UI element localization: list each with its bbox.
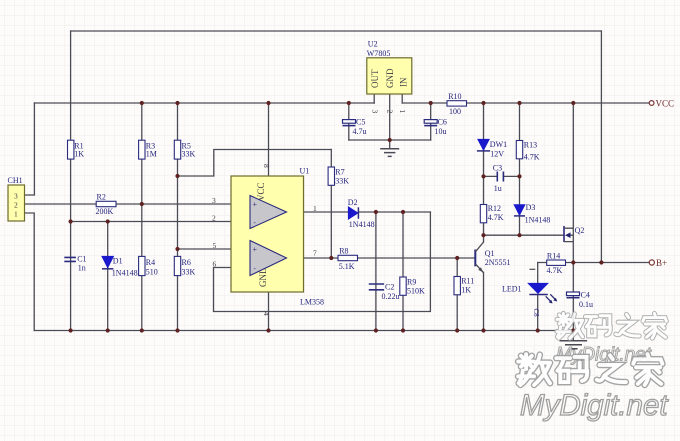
junction pin5 line R6 top bbox=[175, 247, 179, 251]
svg-text:2: 2 bbox=[386, 110, 395, 114]
junction pin7 line R11 top bbox=[455, 256, 459, 260]
svg-text:C6: C6 bbox=[438, 118, 447, 127]
capacitor C4 bbox=[567, 290, 594, 309]
svg-text:0.1u: 0.1u bbox=[579, 300, 593, 309]
wire C3 bridge bbox=[484, 175, 520, 177]
junction VCC rail pin8 bbox=[266, 101, 270, 105]
svg-text:+: + bbox=[253, 245, 258, 254]
svg-text:4.7K: 4.7K bbox=[547, 266, 563, 275]
svg-text:1u: 1u bbox=[494, 184, 502, 193]
svg-text:C8: C8 bbox=[532, 309, 540, 318]
svg-text:R2: R2 bbox=[97, 193, 106, 202]
watermark large 数码之家 bbox=[518, 354, 662, 385]
wire CH1 pin2 to op-amp pin3 through R2 bbox=[25, 203, 250, 205]
svg-text:C4: C4 bbox=[581, 290, 590, 299]
svg-text:R9: R9 bbox=[407, 278, 416, 287]
junction bottom rail Q1 emitter bbox=[481, 328, 485, 332]
svg-text:33K: 33K bbox=[182, 268, 196, 277]
svg-text:1N4148: 1N4148 bbox=[112, 268, 138, 277]
svg-text:U1: U1 bbox=[300, 167, 310, 176]
wire Q1 emitter to bottom rail bbox=[483, 273, 485, 331]
svg-text:R11: R11 bbox=[461, 276, 474, 285]
svg-text:MyDigit.net: MyDigit.net bbox=[520, 389, 669, 422]
svg-text:2: 2 bbox=[14, 200, 18, 209]
svg-text:4: 4 bbox=[262, 312, 271, 316]
svg-text:C3: C3 bbox=[493, 163, 502, 172]
svg-text:1M: 1M bbox=[146, 150, 157, 159]
junction bottom rail C2 bbox=[374, 328, 378, 332]
zener diode DW1 12V bbox=[477, 139, 507, 158]
wire R5 R6 column bbox=[177, 103, 179, 331]
junction B+ line sense column bbox=[599, 260, 603, 264]
wire R3 R4 column bbox=[141, 103, 143, 331]
wire D1 column bbox=[107, 222, 109, 331]
resistor R11 bbox=[454, 276, 474, 294]
svg-text:200K: 200K bbox=[96, 207, 114, 216]
svg-text:R13: R13 bbox=[524, 141, 537, 150]
svg-text:4.7K: 4.7K bbox=[488, 213, 504, 222]
svg-text:R6: R6 bbox=[182, 258, 191, 267]
svg-text:4.7K: 4.7K bbox=[524, 153, 540, 162]
wire left vertical CH1 pin3 bbox=[25, 103, 35, 195]
junction VCC rail R5 bbox=[175, 101, 179, 105]
wire C2 column bbox=[375, 212, 377, 331]
svg-text:D1: D1 bbox=[113, 257, 123, 266]
wire VCC rail right segment bbox=[402, 102, 649, 104]
wire R9 column bbox=[402, 212, 404, 331]
junction gate line D3 bbox=[517, 233, 521, 237]
svg-text:VCC: VCC bbox=[656, 99, 675, 109]
junction pin2 line D1 bbox=[106, 219, 110, 223]
resistor R4 bbox=[139, 256, 158, 276]
svg-text:33K: 33K bbox=[335, 177, 349, 186]
junction C3 left bbox=[481, 174, 485, 178]
resistor R2 bbox=[96, 193, 117, 216]
junction VCC rail R3 bbox=[140, 101, 144, 105]
polarity dash left of R14 bbox=[530, 268, 536, 270]
svg-text:DW1: DW1 bbox=[490, 140, 507, 149]
resistor R9 bbox=[400, 277, 425, 296]
diode D3 1N4148 bbox=[514, 203, 550, 224]
svg-text:7: 7 bbox=[313, 249, 317, 258]
wire C4 branch to ground bbox=[572, 263, 574, 341]
svg-text:1n: 1n bbox=[78, 263, 86, 272]
svg-text:5.1K: 5.1K bbox=[339, 262, 355, 271]
junction VCC rail C5 bbox=[347, 101, 351, 105]
resistor R6 bbox=[174, 256, 195, 276]
resistor R8 bbox=[338, 247, 358, 271]
watermark small 数码之家 bbox=[557, 313, 666, 338]
diode D1 1N4148 bbox=[102, 256, 138, 277]
capacitor C5 bbox=[343, 118, 367, 137]
svg-text:5: 5 bbox=[213, 241, 217, 250]
svg-text:R14: R14 bbox=[547, 251, 560, 260]
junction bottom rail pin4 bbox=[266, 328, 270, 332]
junction VCC rail Q2 drain bbox=[571, 101, 575, 105]
wire R13 D3 column bbox=[519, 103, 521, 235]
svg-text:R4: R4 bbox=[146, 258, 155, 267]
wire op-amp pin2 line bbox=[71, 221, 250, 223]
wire Q2 drain source column bbox=[572, 103, 574, 263]
svg-text:B+: B+ bbox=[656, 258, 667, 268]
VCC terminal bbox=[649, 99, 674, 109]
junction VCC rail C6 bbox=[429, 101, 433, 105]
svg-text:510K: 510K bbox=[407, 287, 425, 296]
junction bottom rail C1 bbox=[69, 328, 73, 332]
svg-text:0.22u: 0.22u bbox=[382, 292, 400, 301]
wire R7 branch to pin7 bbox=[330, 150, 332, 259]
resistor R10 bbox=[447, 92, 467, 116]
wire R11 column bbox=[456, 258, 458, 331]
svg-text:LED1: LED1 bbox=[502, 285, 522, 294]
op-amp U1 section B triangle bbox=[250, 241, 287, 276]
capacitor C6 bbox=[424, 118, 447, 137]
wire left vertical CH1 pin1 to bottom rail bbox=[25, 213, 34, 331]
junction bottom rail R9 bbox=[401, 328, 405, 332]
svg-text:VCC: VCC bbox=[256, 182, 266, 201]
svg-text:1N4148: 1N4148 bbox=[349, 220, 375, 229]
svg-text:R12: R12 bbox=[488, 204, 501, 213]
svg-text:LM358: LM358 bbox=[300, 298, 324, 307]
junction bottom rail LED1 bbox=[536, 328, 540, 332]
svg-text:1: 1 bbox=[398, 110, 407, 114]
diode D2 1N4148 bbox=[348, 198, 375, 229]
svg-text:R8: R8 bbox=[339, 247, 348, 256]
junction gate line R12 Q1 collector bbox=[481, 233, 485, 237]
wire C6 branch bbox=[430, 103, 432, 140]
wire VCC rail left segment bbox=[34, 102, 374, 104]
wire bottom rail bbox=[34, 330, 573, 332]
wire C5 C6 bottom link bbox=[349, 139, 431, 141]
svg-text:GND: GND bbox=[385, 68, 395, 88]
svg-text:12V: 12V bbox=[490, 150, 504, 159]
svg-text:R7: R7 bbox=[335, 168, 344, 177]
svg-text:C2: C2 bbox=[385, 283, 394, 292]
wire R5 bottom to R7 top bbox=[178, 150, 332, 177]
B+ terminal bbox=[649, 258, 667, 268]
junction bottom rail R6 bbox=[175, 328, 179, 332]
junction U2 GND bottom link bbox=[388, 138, 392, 142]
led LED1 bbox=[502, 283, 557, 303]
wire op-amp pin1 output to D2 bbox=[287, 211, 349, 213]
svg-text:33K: 33K bbox=[182, 150, 196, 159]
junction bottom rail R4 bbox=[140, 328, 144, 332]
svg-text:1K: 1K bbox=[461, 285, 471, 294]
capacitor C1 bbox=[64, 254, 86, 272]
junction pin2 line R1 C1 bbox=[69, 219, 73, 223]
wire left column R1/C1 branch bbox=[70, 31, 72, 331]
svg-text:C1: C1 bbox=[77, 254, 86, 263]
wire right sense column to B+ line bbox=[600, 31, 602, 263]
wire B+ line through R14 bbox=[538, 262, 650, 264]
svg-text:3: 3 bbox=[370, 110, 379, 114]
op-amp U1 LM358 body bbox=[231, 167, 324, 307]
svg-text:W7805: W7805 bbox=[367, 49, 391, 58]
wire Q1 collector lead bbox=[483, 235, 485, 242]
svg-text:1K: 1K bbox=[74, 150, 84, 159]
svg-text:U2: U2 bbox=[368, 40, 378, 49]
svg-text:IN: IN bbox=[398, 77, 408, 87]
junction D2 node C2 bbox=[374, 210, 378, 214]
wire op-amp pin6 feedback loop bbox=[214, 212, 431, 312]
wire C5 branch bbox=[348, 103, 350, 140]
svg-text:1N4148: 1N4148 bbox=[525, 215, 551, 224]
junction R2 output R3 bottom bbox=[140, 202, 144, 206]
svg-text:1: 1 bbox=[313, 204, 317, 213]
svg-text:Q1: Q1 bbox=[485, 249, 495, 258]
junction VCC rail R13 bbox=[517, 101, 521, 105]
svg-text:D3: D3 bbox=[526, 203, 536, 212]
svg-text:R10: R10 bbox=[448, 92, 461, 101]
junction D2 node R9 bbox=[401, 210, 405, 214]
wire op-amp pin8 to VCC rail bbox=[268, 103, 270, 176]
svg-text:100: 100 bbox=[449, 107, 461, 116]
resistor R12 bbox=[480, 204, 503, 223]
svg-text:Q2: Q2 bbox=[575, 226, 585, 235]
wire op-amp pin7 through R8 to Q1 base bbox=[287, 257, 476, 259]
resistor R1 bbox=[68, 140, 85, 159]
connector CH1 bbox=[8, 176, 25, 221]
svg-text:3: 3 bbox=[14, 191, 18, 200]
resistor R5 bbox=[174, 140, 195, 159]
wire DW1 R12 column bbox=[483, 103, 485, 235]
svg-text:10u: 10u bbox=[435, 127, 447, 136]
junction bottom rail D1 bbox=[106, 328, 110, 332]
junction bottom rail R11 bbox=[455, 328, 459, 332]
junction pin7 line R7 bottom bbox=[329, 256, 333, 260]
resistor R13 bbox=[516, 141, 540, 162]
svg-text:OUT: OUT bbox=[370, 69, 380, 88]
svg-text:6: 6 bbox=[213, 259, 217, 268]
wire op-amp pin5 line bbox=[178, 248, 251, 250]
op-amp U1 section A triangle bbox=[250, 196, 287, 229]
junction bottom rail C4 bbox=[571, 328, 575, 332]
junction C3 right bbox=[517, 174, 521, 178]
ground below U2 bbox=[380, 149, 399, 157]
wire R14 elbow to LED1 bbox=[537, 263, 539, 284]
wire op-amp pin4 to bottom rail bbox=[268, 292, 270, 331]
wire LED1 cathode to bottom rail bbox=[537, 295, 539, 331]
mosfet Q2 bbox=[564, 226, 584, 242]
svg-text:3: 3 bbox=[212, 196, 216, 205]
capacitor C3 bbox=[493, 163, 504, 193]
svg-text:8: 8 bbox=[262, 164, 271, 168]
junction VCC rail DW1 bbox=[481, 101, 485, 105]
svg-text:2: 2 bbox=[212, 213, 216, 222]
wire Q1 collector node to Q2 gate bbox=[484, 234, 565, 236]
svg-text:1: 1 bbox=[14, 209, 18, 218]
junction B+ line Q2 source bbox=[571, 260, 575, 264]
resistor R3 bbox=[139, 140, 157, 159]
svg-text:4.7u: 4.7u bbox=[353, 127, 367, 136]
wire U2 OUT pin down bbox=[373, 94, 375, 103]
transistor Q1 2N5551 bbox=[475, 242, 510, 272]
svg-text:C5: C5 bbox=[356, 118, 365, 127]
svg-text:D2: D2 bbox=[348, 198, 358, 207]
wire U2 IN pin down bbox=[401, 94, 403, 103]
junction R5 bottom tap bbox=[175, 174, 179, 178]
svg-text:510: 510 bbox=[146, 268, 158, 277]
ground below C4 bbox=[560, 341, 588, 349]
capacitor C2 bbox=[369, 283, 400, 301]
resistor R14 bbox=[547, 251, 566, 275]
wire top rail bbox=[71, 30, 602, 32]
wire D2 cathode node line bbox=[358, 211, 430, 213]
wire U2 GND pin down bbox=[389, 94, 391, 148]
svg-text:+: + bbox=[253, 200, 258, 209]
svg-text:CH1: CH1 bbox=[8, 176, 23, 185]
regulator U2 W7805 bbox=[367, 40, 412, 114]
resistor R7 bbox=[328, 167, 349, 186]
svg-text:2N5551: 2N5551 bbox=[485, 258, 511, 267]
